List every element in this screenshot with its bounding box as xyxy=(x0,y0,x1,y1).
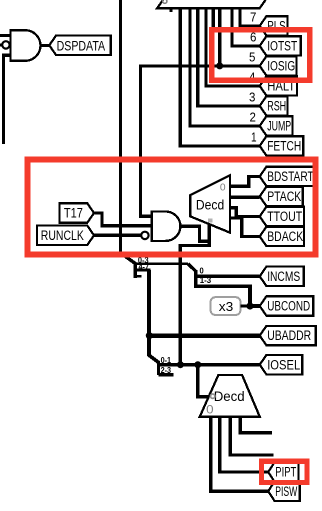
svg-text:3: 3 xyxy=(249,90,255,105)
svg-text:T17: T17 xyxy=(64,206,83,221)
svg-text:1-3: 1-3 xyxy=(200,276,212,285)
svg-text:PISW: PISW xyxy=(275,484,297,499)
svg-text:UBADDR: UBADDR xyxy=(267,328,311,343)
svg-text:x3: x3 xyxy=(219,299,234,314)
svg-text:DSPDATA: DSPDATA xyxy=(57,38,106,53)
svg-text:IOSIG: IOSIG xyxy=(267,59,295,74)
svg-text:IOSEL: IOSEL xyxy=(267,357,300,372)
svg-text:FETCH: FETCH xyxy=(267,139,301,154)
svg-text:IOTST: IOTST xyxy=(267,39,297,54)
svg-text:UBCOND: UBCOND xyxy=(267,299,310,314)
svg-text:2-3: 2-3 xyxy=(161,366,172,375)
svg-text:1: 1 xyxy=(251,130,257,145)
svg-text:PTACK: PTACK xyxy=(267,189,301,204)
svg-text:0: 0 xyxy=(206,402,214,416)
svg-text:INCMS: INCMS xyxy=(267,269,300,284)
svg-text:0-1: 0-1 xyxy=(161,356,172,365)
svg-text:5: 5 xyxy=(249,50,255,65)
svg-text:JUMP: JUMP xyxy=(267,119,291,134)
svg-text:0: 0 xyxy=(220,181,226,193)
svg-text:TTOUT: TTOUT xyxy=(267,209,302,224)
svg-text:4-7: 4-7 xyxy=(139,263,150,272)
svg-text:Decd: Decd xyxy=(214,389,245,404)
svg-text:2: 2 xyxy=(250,110,256,125)
svg-text:BDSTART: BDSTART xyxy=(267,169,314,184)
svg-text:RUNCLK: RUNCLK xyxy=(41,228,84,243)
svg-text:7: 7 xyxy=(250,10,256,25)
svg-text:BDACK: BDACK xyxy=(267,229,303,244)
svg-text:Decd: Decd xyxy=(196,196,224,212)
svg-text:RSH: RSH xyxy=(267,99,286,114)
svg-text:PIPT: PIPT xyxy=(275,465,296,480)
svg-text:0: 0 xyxy=(200,266,205,275)
